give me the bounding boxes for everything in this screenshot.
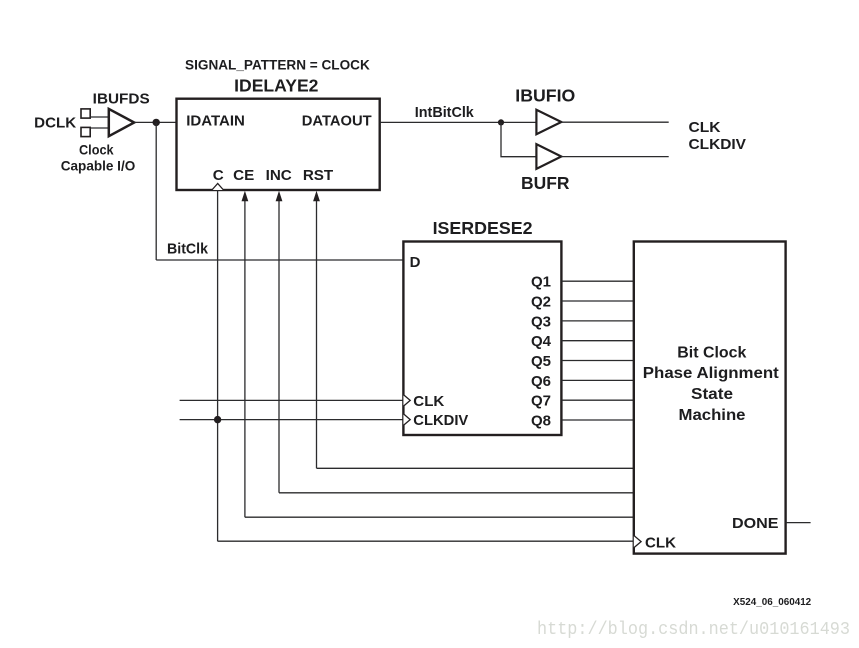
svg-text:CLKDIV: CLKDIV xyxy=(413,412,468,429)
svg-text:State: State xyxy=(691,386,733,403)
junction dot xyxy=(214,416,221,423)
wire BUFR output xyxy=(561,156,668,158)
wire INC vertical xyxy=(278,201,280,493)
arrowhead RST xyxy=(313,191,320,202)
buffer IBUFDS xyxy=(109,109,134,136)
svg-text:SIGNAL_PATTERN = CLOCK: SIGNAL_PATTERN = CLOCK xyxy=(185,58,370,74)
wire BitClk horizontal xyxy=(156,259,403,261)
svg-text:CE: CE xyxy=(233,167,254,184)
svg-text:Q3: Q3 xyxy=(531,313,551,330)
svg-text:IBUFIO: IBUFIO xyxy=(515,85,575,105)
svg-text:Q5: Q5 xyxy=(531,353,551,370)
svg-text:ISERDESE2: ISERDESE2 xyxy=(433,218,533,238)
svg-text:C: C xyxy=(213,167,224,184)
svg-text:INC: INC xyxy=(266,167,292,184)
wire Q7 xyxy=(561,399,633,401)
svg-text:CLK: CLK xyxy=(645,534,676,551)
svg-text:DATAOUT: DATAOUT xyxy=(302,113,372,130)
svg-text:Q6: Q6 xyxy=(531,373,551,390)
wire to BUFR xyxy=(501,122,536,156)
wire RST horizontal xyxy=(317,467,634,469)
clock chevron pin C xyxy=(212,184,224,191)
svg-text:Bit Clock: Bit Clock xyxy=(677,344,747,361)
pad square N xyxy=(81,127,90,136)
wire INC horizontal xyxy=(279,492,634,494)
wire RST vertical xyxy=(316,201,318,469)
block state machine xyxy=(634,242,786,554)
svg-text:Q4: Q4 xyxy=(531,333,552,350)
wire Q6 xyxy=(561,379,633,381)
wire xyxy=(90,127,109,129)
wire CLK stub xyxy=(180,399,404,401)
wire Q2 xyxy=(561,300,633,302)
wire DONE xyxy=(786,522,811,524)
svg-text:Phase Alignment: Phase Alignment xyxy=(643,365,779,382)
svg-text:IBUFDS: IBUFDS xyxy=(93,90,150,107)
wire C net vertical xyxy=(217,190,219,541)
svg-text:http://blog.csdn.net/u01016149: http://blog.csdn.net/u010161493 xyxy=(537,620,850,640)
wire CLKDIV stub xyxy=(180,419,404,421)
svg-text:IDATAIN: IDATAIN xyxy=(186,113,245,130)
clock chevron CLK state machine xyxy=(634,535,641,547)
wire Q5 xyxy=(561,360,633,362)
clock chevron CLKDIV iserdes xyxy=(403,414,410,426)
wire Q1 xyxy=(561,280,633,282)
svg-text:IntBitClk: IntBitClk xyxy=(415,105,475,121)
svg-text:DONE: DONE xyxy=(732,515,779,532)
svg-text:Q7: Q7 xyxy=(531,393,551,410)
svg-text:BUFR: BUFR xyxy=(521,173,570,193)
svg-text:DCLK: DCLK xyxy=(34,115,76,132)
svg-text:CLKDIV: CLKDIV xyxy=(689,136,747,153)
svg-text:Q1: Q1 xyxy=(531,274,551,291)
wire Q3 xyxy=(561,320,633,322)
block ISERDESE2 xyxy=(403,242,561,436)
svg-text:Clock: Clock xyxy=(79,143,114,158)
wire IBUFIO output xyxy=(561,121,668,123)
arrowhead INC xyxy=(276,191,283,202)
svg-text:RST: RST xyxy=(303,167,334,184)
junction dot xyxy=(153,119,160,126)
svg-text:CLK: CLK xyxy=(689,119,721,136)
wire Q4 xyxy=(561,340,633,342)
wire IBUFDS output xyxy=(134,121,176,123)
svg-text:X524_06_060412: X524_06_060412 xyxy=(733,597,812,608)
arrowhead CE xyxy=(242,191,249,202)
wire BitClk vertical xyxy=(155,122,157,260)
buffer IBUFIO xyxy=(536,110,561,134)
svg-text:Q8: Q8 xyxy=(531,413,551,430)
junction dot xyxy=(498,119,504,125)
svg-text:Capable I/O: Capable I/O xyxy=(61,159,136,174)
svg-text:BitClk: BitClk xyxy=(167,241,209,258)
wire xyxy=(90,116,109,118)
wire DATAOUT to IBUFIO xyxy=(380,121,537,123)
clock chevron CLK iserdes xyxy=(403,395,410,407)
wire CE horizontal xyxy=(245,516,634,518)
wire CE vertical xyxy=(244,201,246,518)
pad square P xyxy=(81,109,90,118)
wire C net horizontal to state machine CLK xyxy=(218,540,634,542)
wire Q8 xyxy=(561,419,633,421)
svg-text:Q2: Q2 xyxy=(531,294,551,311)
svg-text:D: D xyxy=(410,254,421,271)
svg-text:CLK: CLK xyxy=(413,393,444,410)
buffer BUFR xyxy=(536,144,561,169)
svg-text:Machine: Machine xyxy=(679,407,746,424)
block IDELAYE2 xyxy=(177,99,380,190)
svg-text:IDELAYE2: IDELAYE2 xyxy=(234,76,318,96)
